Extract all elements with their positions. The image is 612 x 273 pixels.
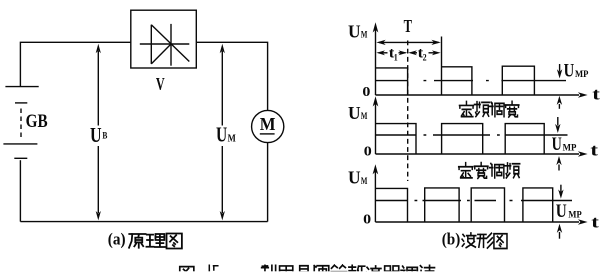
bottom caption sliver char 管 — [331, 265, 346, 273]
plot1 pulse 2 with T reference extension — [441, 37, 443, 96]
plot2 pulse 3 — [505, 124, 544, 154]
svg-text:0: 0 — [363, 212, 371, 227]
caption char 波 — [462, 233, 476, 247]
svg-text:M: M — [361, 112, 368, 122]
plot1 horizontal axis — [376, 94, 580, 96]
caption char 理 — [146, 234, 165, 247]
thyristor V long diagonal — [151, 25, 189, 62]
svg-text:U: U — [348, 168, 361, 188]
wire top-left from battery to thyristor box — [20, 42, 131, 86]
plot1 vertical axis — [375, 29, 377, 95]
bottom caption sliver char 斩 — [349, 265, 365, 273]
plot2 pulse 1 — [376, 124, 417, 154]
thyristor V triangle base — [150, 25, 152, 64]
svg-text:U: U — [564, 60, 575, 81]
caption char 图 — [167, 233, 182, 248]
label 定宽调频 — [459, 163, 473, 178]
wire motor bottom to bottom rail — [267, 143, 269, 222]
wire bottom rail — [20, 221, 267, 223]
svg-text:M: M — [228, 133, 237, 144]
svg-text:1: 1 — [394, 54, 398, 64]
plot2 horizontal axis — [376, 153, 580, 155]
caption char 图 — [494, 234, 507, 249]
svg-text:GB: GB — [26, 111, 48, 132]
battery GB plate long 2 — [3, 143, 37, 145]
svg-text:T: T — [404, 16, 413, 36]
plot3 horizontal axis — [375, 221, 579, 223]
bottom caption sliver char 器 — [384, 266, 399, 273]
svg-text:0: 0 — [364, 144, 372, 159]
svg-text:MP: MP — [568, 211, 581, 221]
bottom caption sliver char 速 — [420, 265, 434, 273]
label 定频调宽 — [459, 101, 473, 116]
bottom caption sliver char 晶 — [296, 266, 311, 273]
plot2 vertical axis — [375, 103, 377, 154]
battery GB plate short 1 — [15, 102, 27, 104]
wire battery bottom lead — [19, 160, 21, 221]
motor underline — [260, 133, 275, 135]
svg-text:2: 2 — [423, 54, 427, 64]
plot3 UMP up arrow below axis — [559, 232, 561, 239]
thyristor V cathode bar — [170, 24, 172, 66]
svg-text:M: M — [361, 31, 368, 41]
bottom caption sliver char 用 — [280, 266, 293, 273]
battery GB plate long 1 — [5, 86, 38, 88]
svg-text:t: t — [590, 140, 598, 159]
bottom caption sliver char 闸 — [314, 266, 329, 273]
plot3 vertical axis — [374, 171, 376, 222]
wire from box right to corner down to motor — [196, 42, 267, 110]
page bottom white margin — [0, 271, 612, 273]
plot1 UMP down arrow — [559, 64, 561, 72]
svg-text:U: U — [90, 123, 102, 147]
plot3 pulse 1 — [376, 188, 408, 222]
svg-text:U: U — [552, 134, 562, 155]
plot2 average dash-dot line — [376, 134, 568, 136]
plot3 pulse 4 — [523, 188, 553, 222]
plot3 pulse 2 — [425, 188, 459, 222]
battery GB dashed cell continuation — [20, 109, 22, 141]
battery GB plate short 2 — [14, 157, 27, 159]
bottom caption sliver char 波 — [366, 266, 381, 273]
bottom caption sliver 图 — [180, 267, 194, 273]
plot1 average dash-dot line — [376, 80, 566, 82]
T dimension arrow — [379, 41, 439, 43]
plot1 UMP up arrow below axis — [558, 104, 560, 109]
svg-text:M: M — [260, 114, 276, 134]
plot1 pulse 3 — [502, 66, 534, 95]
caption char 形 — [477, 233, 493, 248]
svg-text:B: B — [102, 131, 107, 141]
caption char 原 — [129, 234, 146, 248]
dashed vertical reference line — [407, 41, 409, 182]
plot2 pulse 2 — [442, 124, 483, 154]
bottom caption sliver char 调 — [401, 266, 417, 273]
svg-text:t: t — [591, 212, 599, 231]
svg-text:MP: MP — [575, 70, 589, 80]
svg-text:(b): (b) — [442, 230, 461, 249]
svg-text:MP: MP — [563, 144, 577, 154]
thyristor V box — [131, 10, 197, 68]
svg-text:(a): (a) — [108, 230, 126, 249]
svg-text:t: t — [592, 85, 600, 104]
voltage arrow UB — [97, 51, 99, 126]
svg-text:U: U — [348, 103, 361, 123]
svg-text:U: U — [216, 122, 227, 146]
plot1 pulse 1 — [376, 68, 408, 95]
t2 dimension arrow — [411, 52, 418, 54]
bottom caption sliver numbers — [209, 265, 218, 272]
svg-text:0: 0 — [362, 85, 370, 100]
plot2 UMP down arrow — [557, 117, 559, 126]
bottom caption sliver char 利 — [262, 265, 276, 273]
voltage arrow UM of motor — [221, 51, 223, 126]
svg-text:V: V — [156, 74, 165, 94]
plot3 UMP down arrow — [560, 185, 562, 193]
motor M circle — [252, 110, 284, 142]
plot3 average dash-dot line — [376, 200, 572, 202]
thyristor V mid line — [140, 43, 190, 45]
svg-text:M: M — [361, 177, 368, 187]
svg-text:U: U — [348, 22, 361, 42]
svg-text:U: U — [556, 201, 567, 222]
plot2 UMP up arrow below axis — [558, 165, 560, 171]
plot3 pulse 3 — [471, 188, 504, 222]
t1 dimension arrow — [379, 52, 388, 54]
thyristor V short diagonal — [151, 44, 171, 64]
